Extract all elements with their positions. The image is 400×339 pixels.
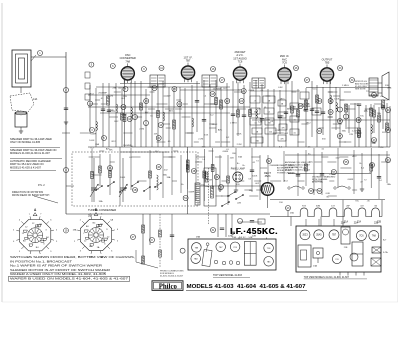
svg-text:FROM REAR OF BAND SWITCH: FROM REAR OF BAND SWITCH bbox=[12, 194, 50, 197]
svg-text:470K: 470K bbox=[122, 114, 128, 116]
svg-text:2.2M: 2.2M bbox=[108, 96, 113, 98]
svg-text:39A: 39A bbox=[249, 189, 253, 192]
svg-text:WAFER B USED ON MODELS 41-604,: WAFER B USED ON MODELS 41-604, 41-605 & … bbox=[10, 276, 129, 280]
svg-text:22B: 22B bbox=[387, 87, 391, 89]
svg-text:.05: .05 bbox=[254, 101, 257, 103]
svg-text:AT 117V AC: AT 117V AC bbox=[312, 181, 324, 184]
svg-text:250MMF: 250MMF bbox=[123, 145, 132, 147]
svg-text:05MF: 05MF bbox=[212, 124, 218, 126]
svg-text:70C: 70C bbox=[145, 112, 149, 114]
svg-text:AVC: AVC bbox=[280, 98, 285, 101]
svg-text:470K: 470K bbox=[236, 134, 242, 136]
svg-text:100K: 100K bbox=[293, 109, 299, 111]
svg-text:2A: 2A bbox=[108, 167, 111, 170]
svg-text:14A: 14A bbox=[33, 98, 38, 101]
svg-text:28A: 28A bbox=[377, 112, 381, 115]
svg-text:7A8: 7A8 bbox=[372, 235, 377, 238]
svg-text:2.2M: 2.2M bbox=[237, 144, 242, 146]
svg-text:28A: 28A bbox=[387, 183, 391, 186]
svg-text:250MMF: 250MMF bbox=[213, 89, 222, 91]
svg-text:2.2M: 2.2M bbox=[352, 130, 357, 132]
svg-text:18A: 18A bbox=[73, 228, 77, 231]
svg-text:05MF: 05MF bbox=[91, 133, 97, 135]
svg-text:05MF: 05MF bbox=[223, 151, 229, 153]
svg-text:Philco: Philco bbox=[159, 284, 178, 291]
svg-text:29A: 29A bbox=[196, 235, 200, 238]
svg-text:2B: 2B bbox=[133, 189, 136, 192]
svg-text:35Z3: 35Z3 bbox=[265, 175, 271, 178]
svg-text:F-7A: F-7A bbox=[383, 251, 388, 254]
svg-text:7B7: 7B7 bbox=[186, 59, 191, 63]
svg-text:250MMF: 250MMF bbox=[302, 106, 311, 108]
svg-text:13A: 13A bbox=[313, 265, 317, 268]
svg-text:MODELS 41-603 41-604 41-605: MODELS 41-603 41-604 41-605 & 41-607 bbox=[187, 284, 306, 290]
svg-text:250MMF: 250MMF bbox=[98, 93, 107, 95]
svg-text:41-603, 41-604 & 41-607: 41-603, 41-604 & 41-607 bbox=[160, 276, 184, 278]
svg-text:MODELS 41-603,41-604 & 41-607: MODELS 41-603,41-604 & 41-607 bbox=[10, 151, 50, 155]
svg-text:7C6: 7C6 bbox=[238, 60, 243, 64]
svg-text:22A: 22A bbox=[357, 221, 362, 224]
svg-text:250MMF: 250MMF bbox=[148, 87, 157, 89]
svg-text:7C6: 7C6 bbox=[282, 61, 287, 65]
svg-text:AVC: AVC bbox=[352, 155, 357, 158]
svg-text:39A: 39A bbox=[205, 185, 209, 188]
svg-text:2.2M: 2.2M bbox=[379, 147, 384, 149]
svg-text:100K: 100K bbox=[89, 140, 95, 142]
svg-text:30M: 30M bbox=[316, 206, 320, 208]
svg-text:15K: 15K bbox=[201, 185, 205, 187]
svg-text:22S: 22S bbox=[228, 236, 232, 238]
svg-text:6.8K: 6.8K bbox=[326, 193, 331, 195]
svg-text:1 MEG: 1 MEG bbox=[342, 85, 349, 87]
svg-text:7C6: 7C6 bbox=[335, 259, 338, 261]
svg-text:15K: 15K bbox=[204, 135, 208, 137]
svg-text:6.8K: 6.8K bbox=[278, 87, 283, 89]
svg-text:39A: 39A bbox=[99, 200, 103, 203]
svg-text:12B: 12B bbox=[258, 122, 262, 124]
svg-text:TOP VIEW MODEL 41-603: TOP VIEW MODEL 41-603 bbox=[213, 274, 242, 277]
svg-text:70C: 70C bbox=[360, 115, 364, 117]
svg-text:22B: 22B bbox=[123, 96, 127, 98]
svg-text:220: 220 bbox=[280, 116, 283, 118]
svg-text:70C: 70C bbox=[355, 201, 359, 203]
svg-text:AVC: AVC bbox=[106, 148, 111, 151]
svg-text:22B: 22B bbox=[252, 236, 256, 238]
svg-text:POWER CHASSIS: POWER CHASSIS bbox=[277, 172, 295, 175]
svg-text:15K: 15K bbox=[279, 202, 283, 204]
svg-text:TUNING CONDENSER: TUNING CONDENSER bbox=[88, 208, 116, 212]
svg-text:MODELS 41-603 & 41-604: MODELS 41-603 & 41-604 bbox=[285, 170, 311, 172]
svg-text:P.S. 2: P.S. 2 bbox=[38, 183, 45, 187]
svg-text:28A: 28A bbox=[113, 87, 117, 90]
svg-text:51C: 51C bbox=[313, 89, 317, 91]
svg-text:23A: 23A bbox=[290, 212, 294, 215]
svg-text:100K: 100K bbox=[252, 176, 258, 178]
svg-text:39A: 39A bbox=[167, 176, 171, 179]
svg-text:22B: 22B bbox=[377, 222, 382, 224]
svg-text:2.2M: 2.2M bbox=[275, 130, 280, 132]
svg-text:22B: 22B bbox=[230, 157, 234, 159]
svg-text:28A: 28A bbox=[372, 142, 376, 145]
svg-text:PANEL LAMP: PANEL LAMP bbox=[231, 168, 246, 171]
svg-text:35A5: 35A5 bbox=[316, 234, 322, 237]
svg-text:AVC: AVC bbox=[287, 107, 292, 110]
svg-text:SEE NOTE: SEE NOTE bbox=[355, 89, 366, 91]
svg-text:ONLY ON MODEL 41-605: ONLY ON MODEL 41-605 bbox=[10, 140, 41, 144]
svg-text:05MF: 05MF bbox=[249, 90, 255, 92]
svg-text:.05: .05 bbox=[293, 120, 296, 122]
svg-text:15K: 15K bbox=[303, 110, 307, 112]
svg-text:33A: 33A bbox=[238, 155, 242, 158]
svg-text:22A ·· 455 KC ·· 14B: 22A ·· 455 KC ·· 14B bbox=[232, 236, 253, 239]
svg-text:.05: .05 bbox=[254, 123, 257, 125]
svg-text:I.F.·455KC.: I.F.·455KC. bbox=[230, 226, 278, 236]
svg-text:C4: C4 bbox=[268, 112, 270, 114]
svg-text:.05: .05 bbox=[293, 133, 296, 135]
svg-text:33A: 33A bbox=[95, 143, 99, 146]
svg-text:15K: 15K bbox=[154, 133, 158, 135]
svg-text:AVC: AVC bbox=[218, 128, 223, 131]
svg-text:21A: 21A bbox=[344, 221, 349, 224]
svg-text:70C: 70C bbox=[202, 146, 206, 148]
svg-text:AVC: AVC bbox=[169, 109, 174, 112]
svg-text:70C: 70C bbox=[257, 108, 261, 110]
svg-text:05MF: 05MF bbox=[348, 179, 354, 181]
svg-text:7C6: 7C6 bbox=[359, 236, 364, 238]
svg-text:2.2M: 2.2M bbox=[198, 139, 203, 141]
svg-text:35Z3: 35Z3 bbox=[302, 235, 308, 237]
svg-text:7A8: 7A8 bbox=[125, 59, 130, 63]
svg-text:05MF: 05MF bbox=[189, 191, 195, 193]
svg-text:7B5: 7B5 bbox=[325, 61, 330, 65]
svg-text:MODELS 41-603 & 41-607: MODELS 41-603 & 41-607 bbox=[10, 165, 42, 169]
svg-text:TOP VIEW MODELS 41-614, 41-603: TOP VIEW MODELS 41-614, 41-603, 41-607 bbox=[304, 277, 350, 279]
svg-text:12B: 12B bbox=[349, 134, 353, 136]
svg-text:7B7: 7B7 bbox=[332, 235, 337, 237]
svg-text:33A: 33A bbox=[342, 130, 346, 133]
svg-text:220: 220 bbox=[269, 132, 272, 134]
svg-text:33A: 33A bbox=[163, 173, 167, 176]
svg-text:1 MEG: 1 MEG bbox=[230, 122, 237, 124]
svg-text:22B: 22B bbox=[237, 203, 241, 205]
svg-text:2.2M: 2.2M bbox=[139, 129, 144, 131]
svg-text:100K: 100K bbox=[334, 98, 340, 100]
